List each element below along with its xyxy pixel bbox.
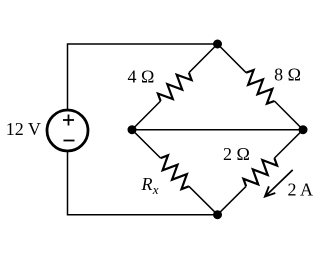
resistor R3 2 ohm (bottom node to right node) bbox=[218, 130, 304, 215]
wire top rail from source to top node bbox=[68, 44, 218, 110]
node right junction dot bbox=[299, 125, 308, 134]
svg-text:4 Ω: 4 Ω bbox=[128, 66, 155, 86]
current arrow 2 A bbox=[265, 170, 293, 197]
voltage source V1 12 V bbox=[47, 110, 88, 151]
wire bottom rail from source to bottom node bbox=[68, 151, 218, 215]
node left junction dot bbox=[128, 125, 137, 134]
svg-text:2 Ω: 2 Ω bbox=[223, 144, 250, 164]
svg-text:x: x bbox=[152, 182, 159, 197]
resistor R1 4 ohm (left node to top node) bbox=[132, 44, 218, 130]
label Rx bbox=[141, 174, 159, 197]
svg-text:2 A: 2 A bbox=[288, 180, 314, 200]
resistor R2 8 ohm (top node to right node) bbox=[218, 44, 304, 130]
svg-text:R: R bbox=[141, 174, 153, 194]
resistor Rx (left node to bottom node) bbox=[132, 130, 218, 215]
svg-text:8 Ω: 8 Ω bbox=[274, 65, 301, 85]
svg-text:12 V: 12 V bbox=[6, 119, 41, 139]
node bottom junction dot bbox=[213, 210, 222, 219]
node top junction dot bbox=[213, 40, 222, 49]
wire middle bridge from node L to node R bbox=[132, 129, 303, 131]
